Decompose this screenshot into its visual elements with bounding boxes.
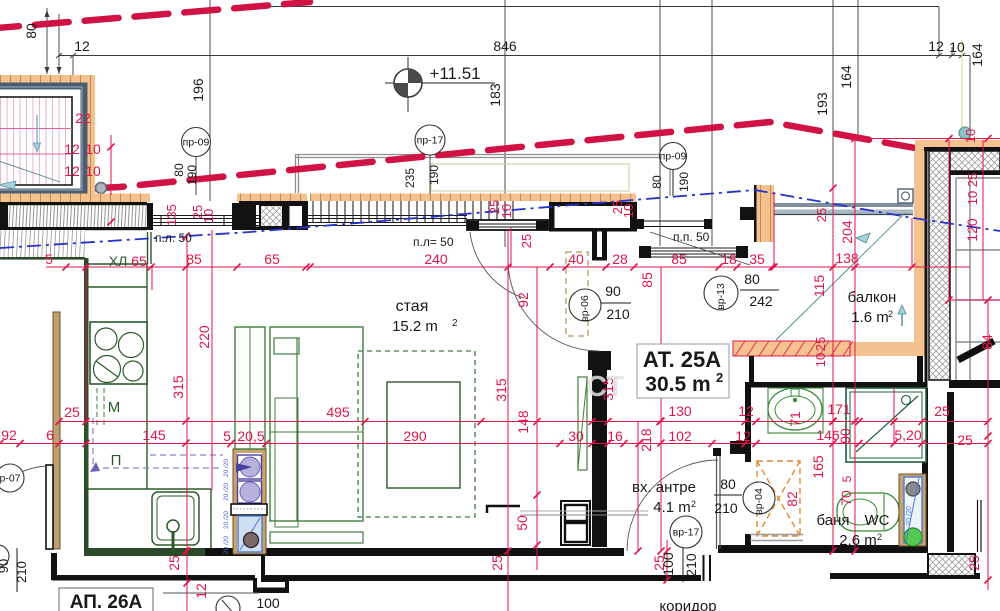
svg-text:2: 2 (452, 318, 458, 329)
ref circle pr-09 right (660, 143, 687, 170)
svg-text:коридор: коридор (659, 598, 716, 611)
stairwell orange frame (0, 75, 95, 195)
kitchen counter outline (86, 232, 211, 548)
svg-text:12: 12 (735, 428, 751, 444)
100 dim bottom (163, 592, 259, 594)
svg-text:1.6 m: 1.6 m (851, 309, 889, 326)
balcony up arrow teal (901, 312, 903, 326)
svg-text:2: 2 (716, 370, 723, 385)
bathroom left wall upper (745, 382, 751, 462)
shaft wall right (947, 392, 954, 552)
toilet (837, 493, 899, 531)
bathroom right wall (922, 388, 928, 551)
svg-text:АП. 26А: АП. 26А (70, 592, 143, 611)
svg-text:10: 10 (85, 141, 101, 157)
corridor wall connector vertical (51, 553, 57, 580)
svg-text:25: 25 (934, 403, 950, 419)
tan corridor wall left (53, 312, 60, 549)
entry-bath stub (730, 441, 746, 454)
kitchen sink (152, 492, 199, 545)
boiler (899, 474, 926, 546)
svg-text:12: 12 (64, 163, 80, 179)
hatched wall left (0-147) (0, 205, 147, 227)
svg-text:210: 210 (14, 561, 29, 583)
washer boxes lavender (238, 455, 262, 479)
svg-text:90: 90 (605, 283, 621, 299)
window W1 jambs (147, 203, 153, 230)
svg-text:5: 5 (45, 251, 53, 267)
svg-text:85: 85 (639, 272, 655, 288)
gray handle circle (96, 183, 107, 194)
right wall piece with diagonal (949, 380, 1000, 388)
dim row y=267 (46, 266, 970, 268)
balcony floor orange band (774, 342, 927, 356)
svg-text:2.6 m: 2.6 m (839, 532, 877, 549)
svg-text:вр-04: вр-04 (753, 488, 765, 515)
svg-text:85: 85 (671, 251, 687, 267)
svg-text:+11.51: +11.51 (429, 64, 480, 83)
entry door arc (627, 460, 718, 551)
svg-text:СТ: СТ (586, 371, 624, 403)
balcony right orange (914, 152, 926, 356)
svg-text:183: 183 (487, 83, 503, 107)
terrace outline above (295, 154, 673, 196)
wall corner block left edge (0, 202, 8, 230)
svg-text:25: 25 (519, 234, 534, 248)
svg-text:92: 92 (1, 427, 17, 443)
svg-text:242: 242 (749, 293, 773, 309)
svg-text:193: 193 (814, 92, 830, 116)
balcony railing gray (774, 203, 913, 207)
entry railing above (636, 219, 644, 229)
svg-text:164: 164 (969, 43, 985, 67)
svg-text:130: 130 (668, 403, 692, 419)
svg-text:12: 12 (193, 583, 209, 599)
AT.25A box (637, 344, 729, 398)
table (387, 382, 460, 488)
stairwell inner black rect with pink hatch (0, 97, 72, 185)
corridor wall left segment (52, 575, 255, 581)
svg-text:25: 25 (813, 337, 828, 351)
svg-text:218: 218 (638, 428, 654, 452)
partial circle left edge (0, 545, 9, 567)
window W1 sill lines (152, 216, 467, 226)
svg-text:80: 80 (650, 175, 664, 189)
svg-text:П: П (111, 452, 122, 469)
dim row y=421 (59, 421, 988, 423)
svg-text:АТ. 25А: АТ. 25А (643, 347, 721, 372)
svg-text:25: 25 (814, 208, 829, 222)
bottom wall black (205, 548, 624, 556)
svg-text:16: 16 (607, 428, 623, 444)
svg-text:20 /20: 20 /20 (223, 536, 230, 554)
svg-text:65: 65 (131, 253, 147, 269)
svg-text:25: 25 (489, 555, 505, 571)
svg-text:4.1 m: 4.1 m (653, 499, 691, 516)
svg-text:12: 12 (64, 141, 80, 157)
corridor lower wall right (830, 573, 980, 579)
svg-text:пр-17: пр-17 (417, 135, 444, 147)
svg-text:90: 90 (837, 428, 853, 444)
svg-text:25: 25 (957, 432, 973, 448)
stair arrow cyan (36, 115, 38, 145)
bottom wall kitchen green (84, 548, 205, 556)
svg-text:25: 25 (965, 173, 980, 187)
pilaster below bottom wall (261, 556, 287, 582)
svg-text:18: 18 (721, 251, 737, 267)
ref circle pr-09 left (182, 128, 211, 157)
svg-text:71: 71 (787, 411, 803, 427)
svg-text:148: 148 (515, 410, 531, 434)
hatched pier below-left (0-85) (0, 230, 85, 257)
ref circle pr-17 (415, 125, 445, 155)
neighbour window band gray (956, 178, 1000, 380)
svg-text:12: 12 (928, 38, 944, 54)
wall stub left of balcony (740, 207, 756, 220)
svg-text:10: 10 (813, 353, 828, 367)
svg-text:70 /20: 70 /20 (906, 506, 913, 526)
svg-text:баня: баня (817, 512, 850, 529)
svg-text:315: 315 (493, 378, 509, 402)
svg-text:20 /20: 20 /20 (223, 459, 230, 477)
svg-text:171: 171 (827, 401, 851, 417)
svg-text:220: 220 (196, 325, 212, 349)
entry door leaf (716, 455, 718, 549)
svg-text:210: 210 (606, 306, 630, 322)
balcony orange column (756, 185, 774, 242)
svg-text:204: 204 (839, 220, 855, 244)
svg-text:30: 30 (568, 428, 584, 444)
svg-text:138: 138 (835, 250, 859, 266)
svg-text:WC: WC (865, 512, 890, 529)
leader diagonal (650, 232, 750, 265)
svg-text:2: 2 (691, 499, 696, 509)
svg-text:115: 115 (811, 275, 827, 298)
ref circle vr-13 (704, 276, 738, 310)
svg-text:10: 10 (621, 204, 636, 218)
svg-text:40: 40 (568, 251, 584, 267)
svg-text:25: 25 (64, 404, 80, 420)
swing arc of terrace window (470, 232, 524, 298)
svg-text:315: 315 (170, 375, 186, 399)
balcony-bath wall verticals (749, 356, 754, 383)
svg-text:25: 25 (166, 555, 182, 571)
svg-text:5,20: 5,20 (894, 427, 921, 443)
svg-text:22: 22 (75, 110, 91, 126)
svg-text:2: 2 (877, 532, 882, 542)
svg-text:145: 145 (142, 427, 166, 443)
shoe cabinet black boxes (561, 501, 590, 545)
bathroom left wall lower (745, 534, 751, 551)
ref circle vr-07 (0, 464, 24, 492)
dashed appliance lines kitchen (96, 388, 98, 428)
appliance column tan (233, 449, 266, 554)
svg-text:190: 190 (677, 172, 691, 192)
svg-text:210: 210 (714, 500, 738, 516)
bed (270, 327, 363, 521)
orange wall strip mid (310, 194, 550, 202)
svg-text:20,5: 20,5 (237, 428, 264, 444)
bathroom door dashed orange (757, 461, 800, 536)
svg-text:25: 25 (966, 555, 982, 571)
ref circle vr-04 (743, 482, 775, 515)
svg-text:100: 100 (256, 595, 280, 611)
svg-text:235: 235 (403, 168, 417, 188)
svg-text:вр-06: вр-06 (579, 295, 591, 322)
svg-text:6: 6 (46, 427, 54, 443)
door leaf АП26А (46, 465, 53, 549)
svg-text:12: 12 (74, 38, 90, 54)
svg-text:135: 135 (164, 204, 179, 226)
teal circle top right (959, 127, 971, 139)
room-entry wall lower (592, 351, 607, 547)
entry window (651, 248, 736, 257)
AP.26A box (59, 588, 153, 611)
svg-text:30.5 m: 30.5 m (645, 373, 710, 396)
stair lines pink (0, 128, 72, 130)
top right orange strip (915, 140, 1000, 152)
left party wall green (84, 258, 89, 552)
svg-text:120: 120 (964, 218, 980, 242)
svg-text:50: 50 (514, 515, 530, 531)
railing bracket (898, 189, 913, 203)
rug dashed green (358, 351, 475, 517)
orange wall strip room right (549, 194, 636, 203)
red vertical dim lines (86, 135, 988, 611)
stair diagonal teal (0, 160, 60, 182)
dim line right y=300 (949, 299, 1000, 301)
balcony south wall hatched orange (733, 341, 850, 356)
svg-text:вр-13: вр-13 (715, 283, 727, 310)
svg-text:балкон: балкон (848, 289, 897, 306)
dashed tan door leaf room (566, 252, 588, 336)
svg-text:вх. антре: вх. антре (632, 479, 696, 496)
cream construction line (961, 40, 963, 140)
svg-text:165: 165 (810, 455, 826, 479)
svg-text:ХЛ: ХЛ (109, 253, 128, 269)
svg-text:846: 846 (493, 38, 517, 54)
svg-text:10: 10 (201, 209, 216, 223)
svg-text:5: 5 (840, 475, 854, 482)
svg-text:п.л. 50: п.л. 50 (155, 231, 192, 245)
svg-text:102: 102 (668, 428, 692, 444)
bath sink counter (768, 388, 823, 433)
svg-text:196: 196 (190, 78, 206, 102)
svg-text:35: 35 (749, 251, 765, 267)
svg-text:п.п. 50: п.п. 50 (673, 230, 710, 244)
bathroom top wall (745, 382, 926, 388)
entry niche line (487, 506, 520, 513)
white band box (231, 504, 267, 515)
bath sink oval (768, 388, 822, 430)
svg-text:80: 80 (744, 271, 760, 287)
svg-text:100: 100 (660, 552, 676, 576)
svg-text:80: 80 (172, 163, 186, 177)
svg-text:10: 10 (499, 204, 514, 218)
corridor wall right segment (285, 575, 701, 581)
corridor door jamb (703, 555, 705, 581)
svg-text:210: 210 (683, 553, 699, 577)
partial circle bottom (216, 596, 240, 611)
mullion band verticals (313, 201, 513, 223)
pillar block with crosshatch pane (239, 201, 308, 205)
svg-text:80: 80 (720, 476, 736, 492)
svg-text:15.2 m: 15.2 m (392, 318, 438, 335)
room top wall (549, 202, 637, 206)
orange wall strip pillar (237, 194, 307, 203)
door arc room-entry (508, 260, 599, 351)
corridor wall notch segment (253, 588, 287, 594)
svg-text:12: 12 (738, 403, 754, 419)
ref circle vr-17 (670, 516, 702, 548)
svg-text:82: 82 (784, 491, 800, 507)
svg-text:10: 10 (85, 163, 101, 179)
svg-text:10: 10 (949, 39, 965, 55)
svg-text:80: 80 (23, 23, 39, 39)
wardrobe (235, 327, 265, 449)
lower blue box (238, 516, 262, 552)
ref circle vr-06 (569, 289, 601, 322)
stove (90, 322, 147, 384)
dim row y=443.5 (0, 443, 988, 445)
svg-text:28: 28 (612, 251, 628, 267)
svg-text:вр-17: вр-17 (673, 527, 700, 539)
blue dash-dot boundary (0, 190, 1000, 248)
svg-text:20 /20: 20 /20 (223, 483, 230, 501)
svg-text:2: 2 (888, 309, 893, 319)
svg-text:п.л= 50: п.л= 50 (413, 235, 454, 249)
shower (846, 388, 926, 462)
masonry crosshatch band right (929, 151, 950, 380)
bath/entry bottom wall (718, 545, 928, 553)
stairwell slate frame (0, 86, 84, 192)
svg-text:164: 164 (838, 65, 854, 89)
corridor crosshatch block (928, 554, 975, 576)
svg-text:190: 190 (185, 165, 199, 185)
svg-text:5: 5 (223, 428, 231, 444)
svg-text:84: 84 (979, 334, 995, 350)
svg-text:240: 240 (424, 251, 448, 267)
svg-text:стая: стая (396, 298, 429, 315)
terrace window 467-548 (467, 220, 548, 230)
svg-text:пр-09: пр-09 (660, 151, 687, 163)
svg-text:10: 10 (963, 129, 978, 143)
dim arrows 80 top-left (45, 10, 62, 74)
dishwasher dashed path lavender (93, 418, 223, 468)
svg-text:495: 495 (326, 404, 350, 420)
svg-text:р-07: р-07 (0, 473, 21, 485)
svg-text:пр-09: пр-09 (183, 137, 210, 149)
dim line top right y=138.5 (855, 138, 1000, 140)
construction lines (47, 0, 970, 253)
orange wall strip left (0, 194, 150, 203)
dim ticks (0, 135, 992, 587)
svg-text:20 /20: 20 /20 (223, 511, 230, 529)
svg-text:M: M (108, 399, 121, 416)
entry threshold line (520, 510, 648, 512)
roof line B red dashed (0, 122, 1000, 194)
svg-text:290: 290 (403, 428, 427, 444)
elevation marker (385, 82, 495, 84)
wall stem between room and entry (592, 229, 597, 260)
bath threshold gray (750, 534, 803, 536)
svg-text:65: 65 (264, 251, 280, 267)
balcony slope diagonal teal (776, 213, 905, 340)
svg-text:10: 10 (965, 191, 980, 205)
radiator room (578, 377, 587, 470)
terrace inner cream rect (431, 164, 629, 191)
door arc АП26А (0, 466, 46, 545)
svg-text:190: 190 (427, 165, 441, 185)
ticks on 846 line (56, 53, 965, 58)
svg-text:70: 70 (838, 490, 854, 506)
roof line A red dashed (0, 2, 310, 29)
svg-text:92: 92 (515, 292, 531, 308)
svg-text:85: 85 (186, 251, 202, 267)
